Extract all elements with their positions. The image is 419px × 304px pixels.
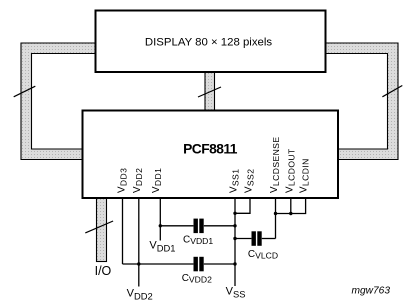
slash on I/O bus [85, 221, 113, 233]
slash on left bus [14, 86, 36, 97]
junction VSS2 joins VSS1 [233, 212, 236, 215]
wire VLCDIN pin jog across to VLCDSENSE [276, 198, 306, 214]
bus I/O [97, 197, 107, 262]
display box [96, 11, 326, 73]
wire VDD3 pin down to CVDD2 rail [122, 198, 124, 264]
svg-text:VDD1: VDD1 [149, 240, 175, 254]
wire CVLCD rail right segment [262, 238, 276, 240]
svg-text:VLCDIN: VLCDIN [299, 158, 311, 193]
svg-text:I/O: I/O [95, 264, 112, 278]
wire VDD1 pin down stub [159, 198, 161, 241]
slash on center bus [198, 87, 221, 97]
wire VLCDSENSE pin down to CVLCD rail [275, 198, 277, 239]
capacitor CVDD1 [194, 219, 204, 234]
svg-text:DISPLAY 80 × 128 pixels: DISPLAY 80 × 128 pixels [145, 37, 272, 49]
svg-text:VSS1: VSS1 [229, 169, 241, 193]
svg-text:VDD3: VDD3 [117, 168, 129, 193]
junction CVDD1 rail on VSS rail [233, 224, 236, 227]
svg-text:mgw763: mgw763 [352, 285, 391, 296]
junction VDD2 on CVDD2 rail [137, 262, 140, 265]
svg-text:VSS: VSS [226, 286, 246, 300]
wire CVDD2 rail left segment [123, 263, 194, 265]
wire VSS1 pin down to VSS stub [234, 198, 236, 286]
bus center (display to PCF8811) [205, 71, 215, 111]
junction VLCDOUT node [289, 212, 292, 215]
wire CVDD1 rail left segment [160, 225, 193, 227]
junction CVDD2 rail on VSS rail [233, 262, 236, 265]
junction VLCDSENSE node [274, 212, 277, 215]
wire CVLCD rail left segment from VSS rail [235, 238, 251, 240]
capacitor CVLCD [252, 231, 262, 246]
svg-text:VLCDSENSE: VLCDSENSE [269, 137, 281, 193]
bus left (display to PCF8811, parallel I/O) [21, 43, 96, 160]
wire VDD2 pin down to supply stub [138, 198, 140, 287]
bus right (display to PCF8811) [325, 43, 398, 160]
svg-text:VDD2: VDD2 [132, 168, 144, 193]
svg-text:VDD2: VDD2 [127, 288, 153, 302]
svg-text:CVDD1: CVDD1 [183, 234, 213, 246]
junction CVLCD rail on VSS rail [233, 237, 236, 240]
svg-text:PCF8811: PCF8811 [183, 142, 238, 157]
svg-text:VSS2: VSS2 [244, 169, 256, 193]
wire VSS2 pin jog to VSS1 [235, 198, 250, 213]
svg-text:CVDD2: CVDD2 [182, 273, 212, 285]
wire CVDD1 rail right segment to VSS rail [204, 225, 235, 227]
wire VLCDOUT pin down [290, 198, 292, 214]
op-chip PCF8811 U1 box [83, 111, 339, 199]
svg-text:VLCDOUT: VLCDOUT [285, 148, 297, 193]
svg-text:CVLCD: CVLCD [248, 249, 278, 261]
svg-text:VDD1: VDD1 [151, 168, 163, 193]
capacitor CVDD2 [194, 257, 204, 272]
junction VDD1 on CVDD1 rail [159, 224, 162, 227]
slash on right bus [382, 86, 402, 97]
wire CVDD2 rail right segment to VSS rail [204, 263, 235, 265]
